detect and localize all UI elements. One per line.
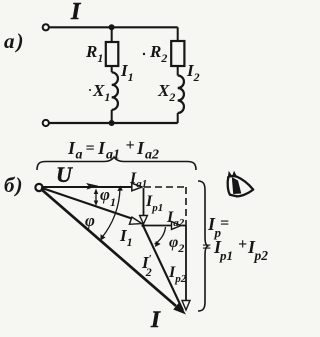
svg-text:a2: a2 [145, 148, 159, 163]
brace right Ip [198, 181, 209, 311]
vector U arrowhead [86, 183, 99, 190]
doodle animal head [228, 171, 254, 197]
wire bottom [49, 122, 178, 124]
node O (origin) [35, 184, 42, 191]
node junction I1 tip [141, 224, 144, 227]
svg-text:+: + [238, 236, 247, 253]
junction dot bottom [109, 120, 115, 126]
junction dot top [109, 24, 115, 30]
svg-text:=: = [220, 215, 229, 232]
inductor X2 [178, 76, 184, 114]
svg-text:=: = [202, 239, 211, 256]
resistor R1 [106, 42, 119, 66]
vector I (total) [41, 189, 176, 306]
svg-text:U: U [56, 162, 73, 187]
resistor R2 [171, 41, 184, 66]
svg-text:I: I [150, 307, 161, 332]
svg-text:I: I [136, 138, 145, 158]
wire dashed horizontal top [144, 186, 186, 188]
vector I2' [143, 226, 183, 311]
wire branch1 lower [111, 110, 113, 123]
label Ip = [207, 214, 229, 240]
svg-text:б): б) [4, 173, 22, 197]
wire axis horizontal [43, 186, 134, 188]
vector Ia2 [143, 225, 186, 227]
angle phi arc [102, 188, 121, 238]
vector Ip2 [185, 226, 187, 302]
svg-text:+: + [126, 137, 135, 154]
wire dashed vertical right [185, 187, 187, 226]
svg-text:p1: p1 [219, 248, 233, 263]
svg-text:I: I [97, 138, 106, 158]
terminal top-left [43, 24, 49, 30]
svg-text:a: a [76, 148, 83, 163]
wire branch1 upper [111, 27, 113, 42]
wire branch2 lower [177, 113, 179, 123]
vector I1 [41, 188, 135, 220]
svg-text:а): а) [4, 29, 24, 53]
wire top [49, 26, 178, 28]
angle phi2 arc [155, 227, 166, 244]
wire branch2 mid [177, 66, 179, 76]
svg-text:I: I [70, 0, 82, 25]
brace over Ia [37, 157, 196, 170]
vector Ia1 arrowhead [132, 183, 142, 191]
svg-text:=: = [86, 140, 95, 157]
equation Ia = Ia1 + Ia2 [67, 137, 159, 163]
wire branch1 mid [111, 66, 113, 72]
vector Ip1 [143, 188, 145, 216]
inductor X1 [112, 72, 118, 110]
label = Ip1 + Ip2 [202, 236, 268, 263]
wire branch2 upper [177, 27, 179, 41]
svg-text:p2: p2 [254, 248, 269, 263]
angle phi1 arrow [95, 191, 97, 203]
terminal bottom-left [43, 120, 49, 126]
